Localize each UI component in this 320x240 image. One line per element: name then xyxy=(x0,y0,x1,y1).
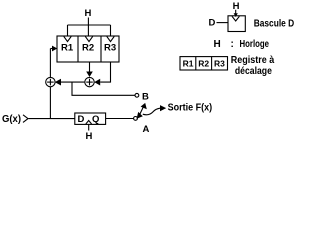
legend wire D to box xyxy=(217,22,229,24)
svg-text:R3: R3 xyxy=(104,43,116,54)
label B xyxy=(142,91,149,102)
label A xyxy=(143,124,150,135)
clock H label xyxy=(85,8,92,19)
label G(x) xyxy=(2,114,21,125)
legend label R3 xyxy=(214,58,225,68)
svg-text:D: D xyxy=(209,18,216,29)
svg-text:G(x): G(x) xyxy=(2,114,21,125)
svg-text:R2: R2 xyxy=(198,58,209,68)
xor gate X1 xyxy=(46,77,55,86)
clock notch R1 xyxy=(64,36,71,41)
legend wire H down xyxy=(235,10,237,14)
wire feedback into R1 xyxy=(50,48,52,50)
wire G(x) line to D input xyxy=(29,118,75,120)
legend label Registre a decalage xyxy=(231,55,275,77)
label H flip-flop xyxy=(86,131,93,142)
wire H distribution bus xyxy=(68,24,111,26)
wire Q output to A xyxy=(106,118,134,120)
wire tap to B xyxy=(72,82,135,95)
svg-text:H: H xyxy=(214,39,221,50)
wire bus drop to R1 xyxy=(67,25,69,36)
flip-flop D Q box xyxy=(75,113,106,124)
clock notch flip-flop xyxy=(86,121,92,125)
svg-text:décalage: décalage xyxy=(235,66,272,77)
input chevron G(x) xyxy=(23,115,28,123)
legend H label xyxy=(233,1,240,12)
legend label D xyxy=(209,18,216,29)
switch lever double arrow xyxy=(140,106,144,115)
wire bus drop to R3 xyxy=(110,25,112,36)
svg-text:Q: Q xyxy=(92,114,99,125)
wire R2 output down into XOR2 xyxy=(89,62,91,72)
legend label R2 xyxy=(198,58,209,68)
wire XOR1 output up xyxy=(49,49,51,78)
label Sortie F(x) xyxy=(168,103,213,114)
legend label H : Horloge xyxy=(214,39,270,50)
svg-text:D: D xyxy=(78,114,85,125)
label D xyxy=(78,114,85,125)
output curved arrow to Sortie xyxy=(143,108,160,115)
svg-text:R3: R3 xyxy=(214,58,225,68)
legend label Bascule D xyxy=(254,19,295,30)
svg-text:R1: R1 xyxy=(61,43,74,54)
label Q xyxy=(92,114,99,125)
xor gate X2 xyxy=(85,77,94,86)
wire XOR2 to XOR1 xyxy=(61,81,84,83)
svg-text::: : xyxy=(231,39,234,50)
legend clock notch xyxy=(232,16,239,21)
label R1 xyxy=(61,43,74,54)
legend label R1 xyxy=(183,58,194,68)
terminal B xyxy=(135,93,139,97)
clock notch R2 xyxy=(85,36,92,41)
svg-text:H: H xyxy=(86,131,93,142)
wire XOR1 down to G(x) line xyxy=(49,87,51,119)
svg-text:H: H xyxy=(85,8,92,19)
svg-text:Bascule D: Bascule D xyxy=(254,19,295,30)
wire H vertical drop xyxy=(87,18,89,37)
legend register box xyxy=(180,57,228,70)
clock notch R3 xyxy=(107,36,114,41)
register box R1 R2 R3 xyxy=(57,36,119,62)
svg-text:A: A xyxy=(143,124,150,135)
label R3 xyxy=(104,43,116,54)
terminal A xyxy=(134,117,138,121)
wire H into flip-flop xyxy=(88,124,90,130)
label R2 xyxy=(82,43,94,54)
svg-text:Registre à: Registre à xyxy=(231,55,275,66)
svg-text:R2: R2 xyxy=(82,43,94,54)
legend flip-flop box xyxy=(228,16,245,32)
svg-text:B: B xyxy=(142,91,149,102)
svg-text:Sortie F(x): Sortie F(x) xyxy=(168,103,213,114)
wire R3 output down and left into XOR2 xyxy=(100,62,110,82)
svg-text:Horloge: Horloge xyxy=(240,39,270,50)
svg-text:R1: R1 xyxy=(183,58,194,68)
